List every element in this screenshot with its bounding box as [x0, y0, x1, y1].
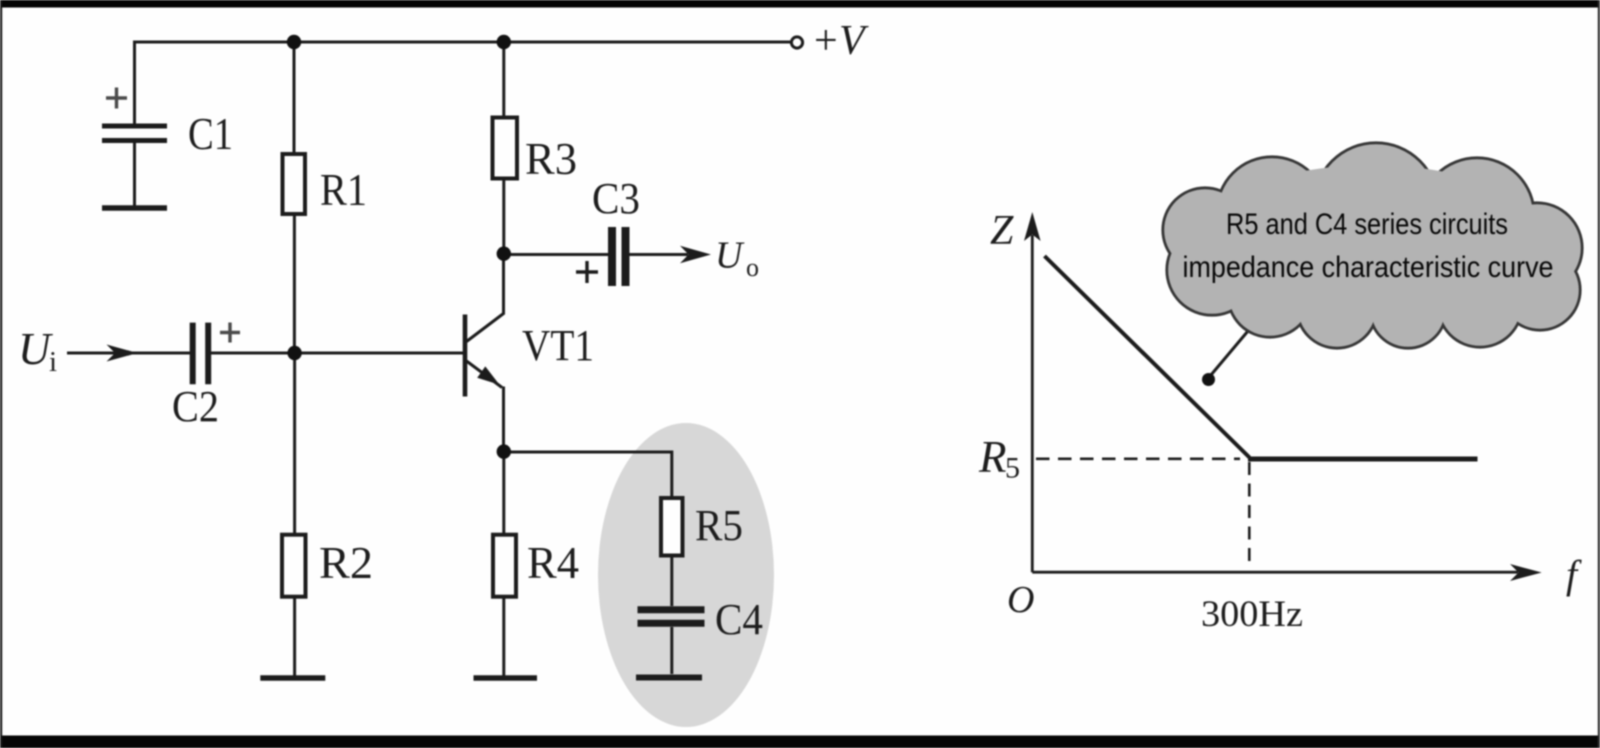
junction dots: [287, 35, 511, 459]
wire R3 top lead: [502, 42, 505, 118]
plus C1: [106, 88, 127, 109]
svg-text:impedance characteristic curve: impedance characteristic curve: [1183, 251, 1554, 284]
node rail-R1: [287, 35, 301, 49]
capacitor C4: [638, 606, 705, 613]
wire R2 to ground: [293, 597, 296, 676]
wire emitter node to R4: [502, 452, 505, 535]
resistor R1: [283, 154, 306, 214]
curve descending: [1045, 256, 1250, 458]
graph: [1032, 235, 1518, 572]
bottom black bar: [0, 736, 1600, 748]
wire R3 bottom lead: [502, 179, 505, 254]
wire base node to R2: [293, 353, 296, 535]
wire R5 to C4: [670, 556, 673, 607]
wire C1 top lead: [133, 41, 136, 125]
svg-text:R5 and C4 series circuits: R5 and C4 series circuits: [1226, 208, 1508, 241]
wire top rail: [135, 41, 791, 44]
svg-text:U: U: [18, 324, 53, 374]
svg-text:R4: R4: [527, 537, 579, 588]
arrow emitter: [477, 366, 499, 384]
wire input Ui: [67, 352, 190, 355]
wire R1 bottom lead: [293, 214, 296, 353]
left edge line: [0, 0, 2, 748]
wire R4 to ground: [502, 597, 505, 676]
plus C3: [576, 261, 598, 283]
dashed vertical 300Hz: [1248, 462, 1251, 569]
ground R2: [260, 675, 325, 681]
graph labels: [978, 208, 1582, 635]
right edge line: [1598, 0, 1600, 748]
wire emitter node to R5 branch: [504, 452, 672, 498]
ground C4: [636, 675, 702, 681]
node rail-R3: [497, 35, 511, 49]
transistor VT1: [463, 315, 468, 397]
callout pointer dot: [1202, 373, 1215, 386]
x axis f: [1032, 571, 1518, 574]
svg-text:+: +: [814, 18, 838, 64]
y axis Z: [1031, 235, 1034, 572]
curve flat: [1248, 457, 1478, 462]
node emitter: [497, 444, 511, 458]
capacitor C1: [102, 124, 167, 129]
power terminal +V: [791, 37, 802, 48]
top black bar: [0, 0, 1600, 8]
wire C4 to ground: [670, 627, 673, 674]
wire R1 top lead: [293, 42, 296, 154]
resistor R2: [282, 535, 306, 597]
svg-text:C3: C3: [592, 174, 640, 223]
resistor R3: [493, 118, 518, 179]
wire C3 to output: [630, 253, 689, 256]
ground C1: [102, 205, 167, 211]
wire collector node to C3: [504, 253, 608, 256]
svg-text:VT1: VT1: [522, 321, 594, 370]
arrowheads: [107, 246, 712, 385]
arrow y axis: [1024, 212, 1041, 241]
cloud callout: [1163, 143, 1582, 348]
svg-text:5: 5: [1005, 452, 1020, 485]
svg-text:R5: R5: [695, 501, 743, 550]
arrow output: [680, 246, 711, 263]
svg-text:300Hz: 300Hz: [1201, 594, 1303, 635]
svg-text:C2: C2: [172, 382, 219, 431]
callout text: [1183, 208, 1554, 284]
arrow input: [107, 345, 138, 362]
node base: [287, 346, 301, 360]
dashed horizontal R5 level: [1036, 457, 1240, 460]
plus C2: [220, 323, 240, 343]
resistor R4: [493, 535, 516, 597]
highlight ellipse around R5/C4: [598, 423, 774, 727]
capacitor C3: [608, 227, 616, 286]
svg-text:Z: Z: [990, 208, 1014, 254]
callout pointer line: [1208, 328, 1251, 379]
ground R4: [474, 675, 538, 681]
svg-text:o: o: [746, 253, 759, 282]
svg-text:R: R: [978, 432, 1007, 482]
svg-text:R3: R3: [525, 133, 577, 184]
svg-text:O: O: [1007, 579, 1034, 621]
svg-text:R2: R2: [319, 537, 373, 588]
svg-text:U: U: [715, 235, 745, 277]
svg-text:C4: C4: [715, 595, 763, 644]
svg-text:V: V: [839, 18, 869, 64]
wire C2 to base node: [211, 352, 465, 355]
labels circuit (serif): [18, 18, 869, 644]
node collector: [497, 247, 511, 261]
svg-text:i: i: [49, 346, 57, 378]
resistor R5: [661, 498, 683, 556]
capacitor C2: [190, 323, 196, 385]
svg-text:R1: R1: [320, 164, 367, 215]
svg-text:C1: C1: [188, 108, 233, 159]
arrow x axis: [1510, 564, 1542, 581]
